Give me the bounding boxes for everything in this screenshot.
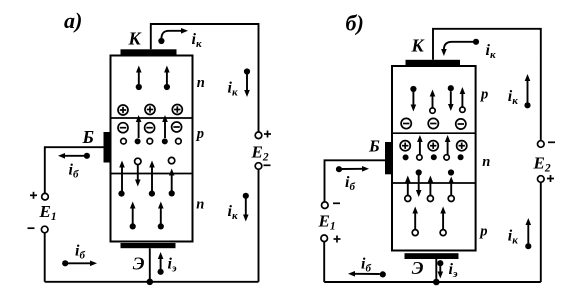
current arrow i_k at collector (a)	[158, 31, 181, 44]
svg-text:К: К	[411, 35, 426, 55]
current arrow i_e (a)	[158, 259, 164, 275]
emitter junction band carriers (a)	[118, 157, 174, 196]
collector contact bar (a)	[121, 49, 177, 54]
electron crossing up mid	[149, 191, 155, 197]
emitter junction line (b)	[392, 182, 476, 184]
wire: bottom horizontal (b)	[324, 281, 541, 283]
svg-text:а): а)	[64, 8, 82, 33]
wire: base to left and down to E1 (a)	[45, 147, 104, 193]
electrons in emitter region row2 (a)	[130, 208, 164, 229]
plus sign E2 (b)	[547, 175, 554, 182]
emitter contact bar (b)	[405, 253, 459, 259]
battery E1 terminal + (b)	[321, 235, 328, 242]
battery E1 terminal + (a)	[42, 193, 49, 200]
junction node at emitter (a)	[147, 279, 154, 286]
base contact bar (a)	[104, 132, 112, 163]
electron crossing up left	[118, 191, 124, 197]
current arrow i_b upper (a)	[65, 153, 91, 159]
electron injected down	[416, 169, 422, 175]
wire: E1 down to bottom (a)	[44, 233, 46, 282]
minus sign E1 (b)	[333, 202, 340, 204]
svg-text:К: К	[128, 28, 143, 48]
collector contact bar (b)	[406, 60, 461, 65]
plus sign E2 (a)	[264, 131, 271, 138]
battery E2 terminal - (a)	[255, 163, 262, 170]
emitter junction band carriers (b)	[405, 169, 454, 201]
svg-text:Б: Б	[82, 127, 94, 147]
wire: E2 down to bottom (b)	[540, 182, 542, 282]
minus sign E2 (b)	[548, 141, 555, 143]
emitter junction line (a)	[111, 173, 193, 175]
collector junction line (a)	[111, 117, 193, 119]
holes in emitter region row2 (b)	[412, 213, 446, 236]
battery E1 terminal - (a)	[41, 226, 48, 233]
emitter contact bar (a)	[121, 243, 176, 248]
wire: E2 down to bottom (a)	[258, 169, 260, 281]
donor ion row + (b)	[400, 141, 467, 151]
electron flow arrows through collector junction (a)	[139, 122, 165, 139]
electron to hole recombination right	[169, 190, 175, 196]
base contact bar (b)	[385, 142, 392, 174]
electrons in collector region (a)	[136, 72, 170, 90]
hole flow arrows through collector junction (b)	[420, 142, 448, 155]
current arrow i_k right lower (a)	[243, 193, 249, 215]
wire: collector up and right to E2 (a)	[151, 24, 259, 132]
hole crossing up mid	[427, 196, 433, 202]
svg-text:n: n	[196, 197, 204, 213]
svg-text:Б: Б	[368, 137, 380, 156]
hole crossing up left	[405, 196, 411, 202]
wire: bottom horizontal (a)	[45, 281, 259, 283]
plus sign E1 (a)	[30, 192, 37, 199]
holes and electrons in collector region (b)	[410, 85, 465, 113]
hole to electron recombination right	[448, 169, 454, 175]
current arrow i_b lower (a)	[62, 260, 90, 266]
electrons and holes in base region (b)	[403, 154, 464, 160]
hole injected down	[135, 158, 141, 164]
acceptor ion row - (b)	[401, 118, 466, 129]
svg-text:Э: Э	[133, 253, 145, 273]
svg-text:Э: Э	[412, 258, 424, 278]
wire: emitter to node (b)	[435, 259, 437, 282]
minus sign E1 (a)	[28, 227, 35, 229]
wire: collector up and right to E2 (b)	[433, 29, 541, 141]
svg-text:б): б)	[346, 11, 364, 36]
plus sign E1 (b)	[334, 236, 341, 243]
svg-text:n: n	[197, 75, 205, 91]
current arrow i_k right lower (b)	[525, 225, 531, 250]
donor ion row + (a)	[118, 105, 182, 116]
battery E1 terminal - (b)	[322, 202, 329, 209]
current arrow i_k at collector (b)	[444, 39, 479, 50]
current arrow i_k right upper (a)	[244, 68, 250, 90]
battery E2 terminal + (a)	[255, 132, 262, 139]
transistor body (a) n-p-n	[111, 56, 193, 242]
wire: base to left and down to E1 (b)	[325, 160, 386, 202]
minus sign E2 (a)	[264, 164, 271, 166]
svg-text:p: p	[195, 126, 204, 142]
battery E2 terminal - (b)	[538, 141, 545, 148]
collector junction line (b)	[392, 132, 476, 134]
svg-text:p: p	[479, 87, 488, 103]
svg-text:n: n	[482, 154, 490, 170]
current arrow i_k right upper (b)	[524, 81, 530, 109]
holes and electrons in base region (a)	[121, 138, 182, 144]
current arrow i_b lower (b)	[355, 271, 386, 277]
wire: E1 down to bottom (b)	[323, 242, 325, 282]
current arrow i_b upper (b)	[336, 166, 363, 172]
battery E2 terminal + (b)	[538, 176, 545, 183]
junction node at emitter (b)	[433, 279, 440, 286]
wire: emitter to node (a)	[149, 248, 151, 281]
svg-text:p: p	[478, 223, 487, 239]
acceptor ion row - (a)	[118, 122, 182, 133]
current arrow i_e (b)	[437, 260, 443, 272]
transistor body (b) p-n-p	[392, 66, 476, 251]
